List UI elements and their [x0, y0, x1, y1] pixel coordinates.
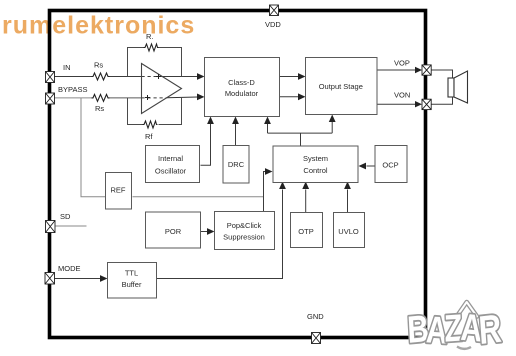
svg-text:Output Stage: Output Stage: [319, 82, 363, 91]
svg-text:Suppression: Suppression: [223, 233, 265, 242]
svg-text:Buffer: Buffer: [122, 280, 142, 289]
svg-text:TTL: TTL: [125, 269, 138, 278]
svg-text:Rs: Rs: [95, 104, 104, 113]
svg-text:POR: POR: [165, 227, 182, 236]
svg-text:IN: IN: [63, 63, 71, 72]
svg-text:VON: VON: [394, 91, 410, 100]
svg-text:Pop&Click: Pop&Click: [227, 221, 262, 230]
svg-text:R: R: [477, 306, 503, 353]
svg-text:rumelektronics: rumelektronics: [2, 12, 195, 40]
svg-text:DRC: DRC: [228, 160, 245, 169]
svg-text:VOP: VOP: [394, 59, 410, 68]
svg-text:Modulator: Modulator: [225, 89, 259, 98]
svg-text:OCP: OCP: [382, 161, 398, 170]
svg-text:Rs: Rs: [94, 61, 103, 70]
svg-text:UVLO: UVLO: [338, 227, 359, 236]
svg-text:OTP: OTP: [298, 227, 313, 236]
svg-text:REF: REF: [111, 186, 126, 195]
svg-text:VDD: VDD: [265, 20, 281, 29]
svg-text:GND: GND: [307, 312, 324, 321]
svg-text:System: System: [303, 154, 328, 163]
svg-text:Internal: Internal: [158, 154, 183, 163]
svg-text:R.: R.: [146, 32, 154, 41]
svg-text:Class-D: Class-D: [228, 78, 255, 87]
svg-text:Rf: Rf: [145, 132, 153, 141]
svg-text:Control: Control: [303, 166, 328, 175]
svg-text:SD: SD: [60, 212, 71, 221]
svg-text:BYPASS: BYPASS: [58, 85, 87, 94]
svg-text:MODE: MODE: [58, 264, 81, 273]
svg-text:Oscillator: Oscillator: [155, 167, 187, 176]
